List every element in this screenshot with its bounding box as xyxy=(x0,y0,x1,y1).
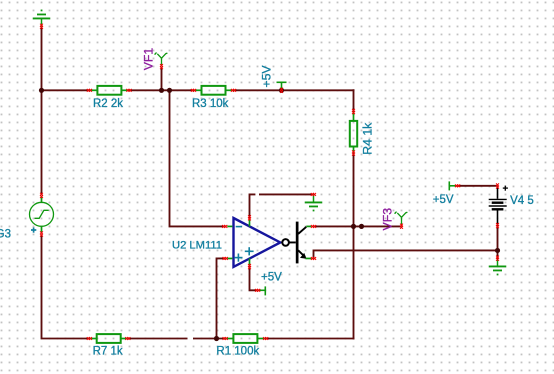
svg-text:V4 5: V4 5 xyxy=(510,195,534,207)
svg-text:+5V: +5V xyxy=(260,65,274,88)
svg-text:R4 1k: R4 1k xyxy=(360,122,374,155)
svg-text:VG3: VG3 xyxy=(0,228,11,240)
svg-text:+5V: +5V xyxy=(433,194,454,206)
svg-text:R7 1k: R7 1k xyxy=(93,346,123,358)
svg-text:VF1: VF1 xyxy=(141,48,155,71)
svg-text:+5V: +5V xyxy=(261,272,282,284)
svg-text:VF3: VF3 xyxy=(381,208,395,231)
svg-text:R3 10k: R3 10k xyxy=(192,98,229,110)
svg-text:U2 LM111: U2 LM111 xyxy=(172,240,222,252)
svg-text:R1 100k: R1 100k xyxy=(216,346,259,358)
svg-text:R2 2k: R2 2k xyxy=(93,98,123,110)
